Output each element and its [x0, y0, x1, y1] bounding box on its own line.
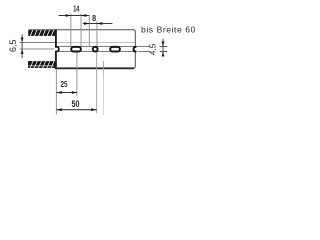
wire: slot row bottom line	[57, 51, 150, 53]
wire: faint vertical line at x=103.4	[102, 61, 104, 69]
slot 2	[93, 47, 98, 52]
svg-text:8: 8	[92, 13, 96, 23]
wire: extension line 8 right	[96, 21, 98, 46]
hatched clamp bar top	[28, 30, 55, 36]
dimension 8: line	[83, 22, 113, 25]
svg-text:4,5: 4,5	[148, 43, 157, 55]
wire: slot row top line	[57, 46, 150, 48]
hatched clamp bar bottom	[28, 61, 55, 68]
svg-text:bis Breite 60: bis Breite 60	[141, 25, 196, 35]
slot 3	[110, 47, 120, 52]
dimension 25: line	[56, 91, 77, 94]
wire: faint inner line A across rail (6,5 upper extension)	[20, 42, 135, 44]
wire: extension line 25 right (slot 1 axis)	[76, 52, 78, 95]
dimension 6,5: line and arrows	[21, 34, 24, 58]
svg-text:25: 25	[61, 79, 68, 89]
node: rail body outline	[28, 29, 135, 68]
svg-text:50: 50	[72, 99, 80, 109]
half slot at rail right edge	[134, 47, 139, 52]
wire: extension line 8 left	[88, 15, 90, 46]
wire: 6,5 lower extension line	[20, 48, 55, 50]
dimension 4,5: line and arrows	[162, 39, 165, 57]
svg-text:6,5: 6,5	[8, 40, 18, 53]
wire: extension line 14 left	[70, 13, 72, 46]
wire: extension line 50 right	[96, 52, 98, 113]
dimension 14: line	[59, 14, 90, 17]
wire: 4,5 extension stubs right of text	[160, 46, 167, 48]
svg-text:14: 14	[73, 4, 79, 14]
dimension 50: line	[56, 108, 96, 111]
bump half-slot at rail left edge	[54, 47, 59, 52]
wire: extension line 25/50 left	[55, 69, 57, 115]
slot 1	[71, 47, 81, 52]
wire: extension line 14 right	[80, 13, 82, 46]
